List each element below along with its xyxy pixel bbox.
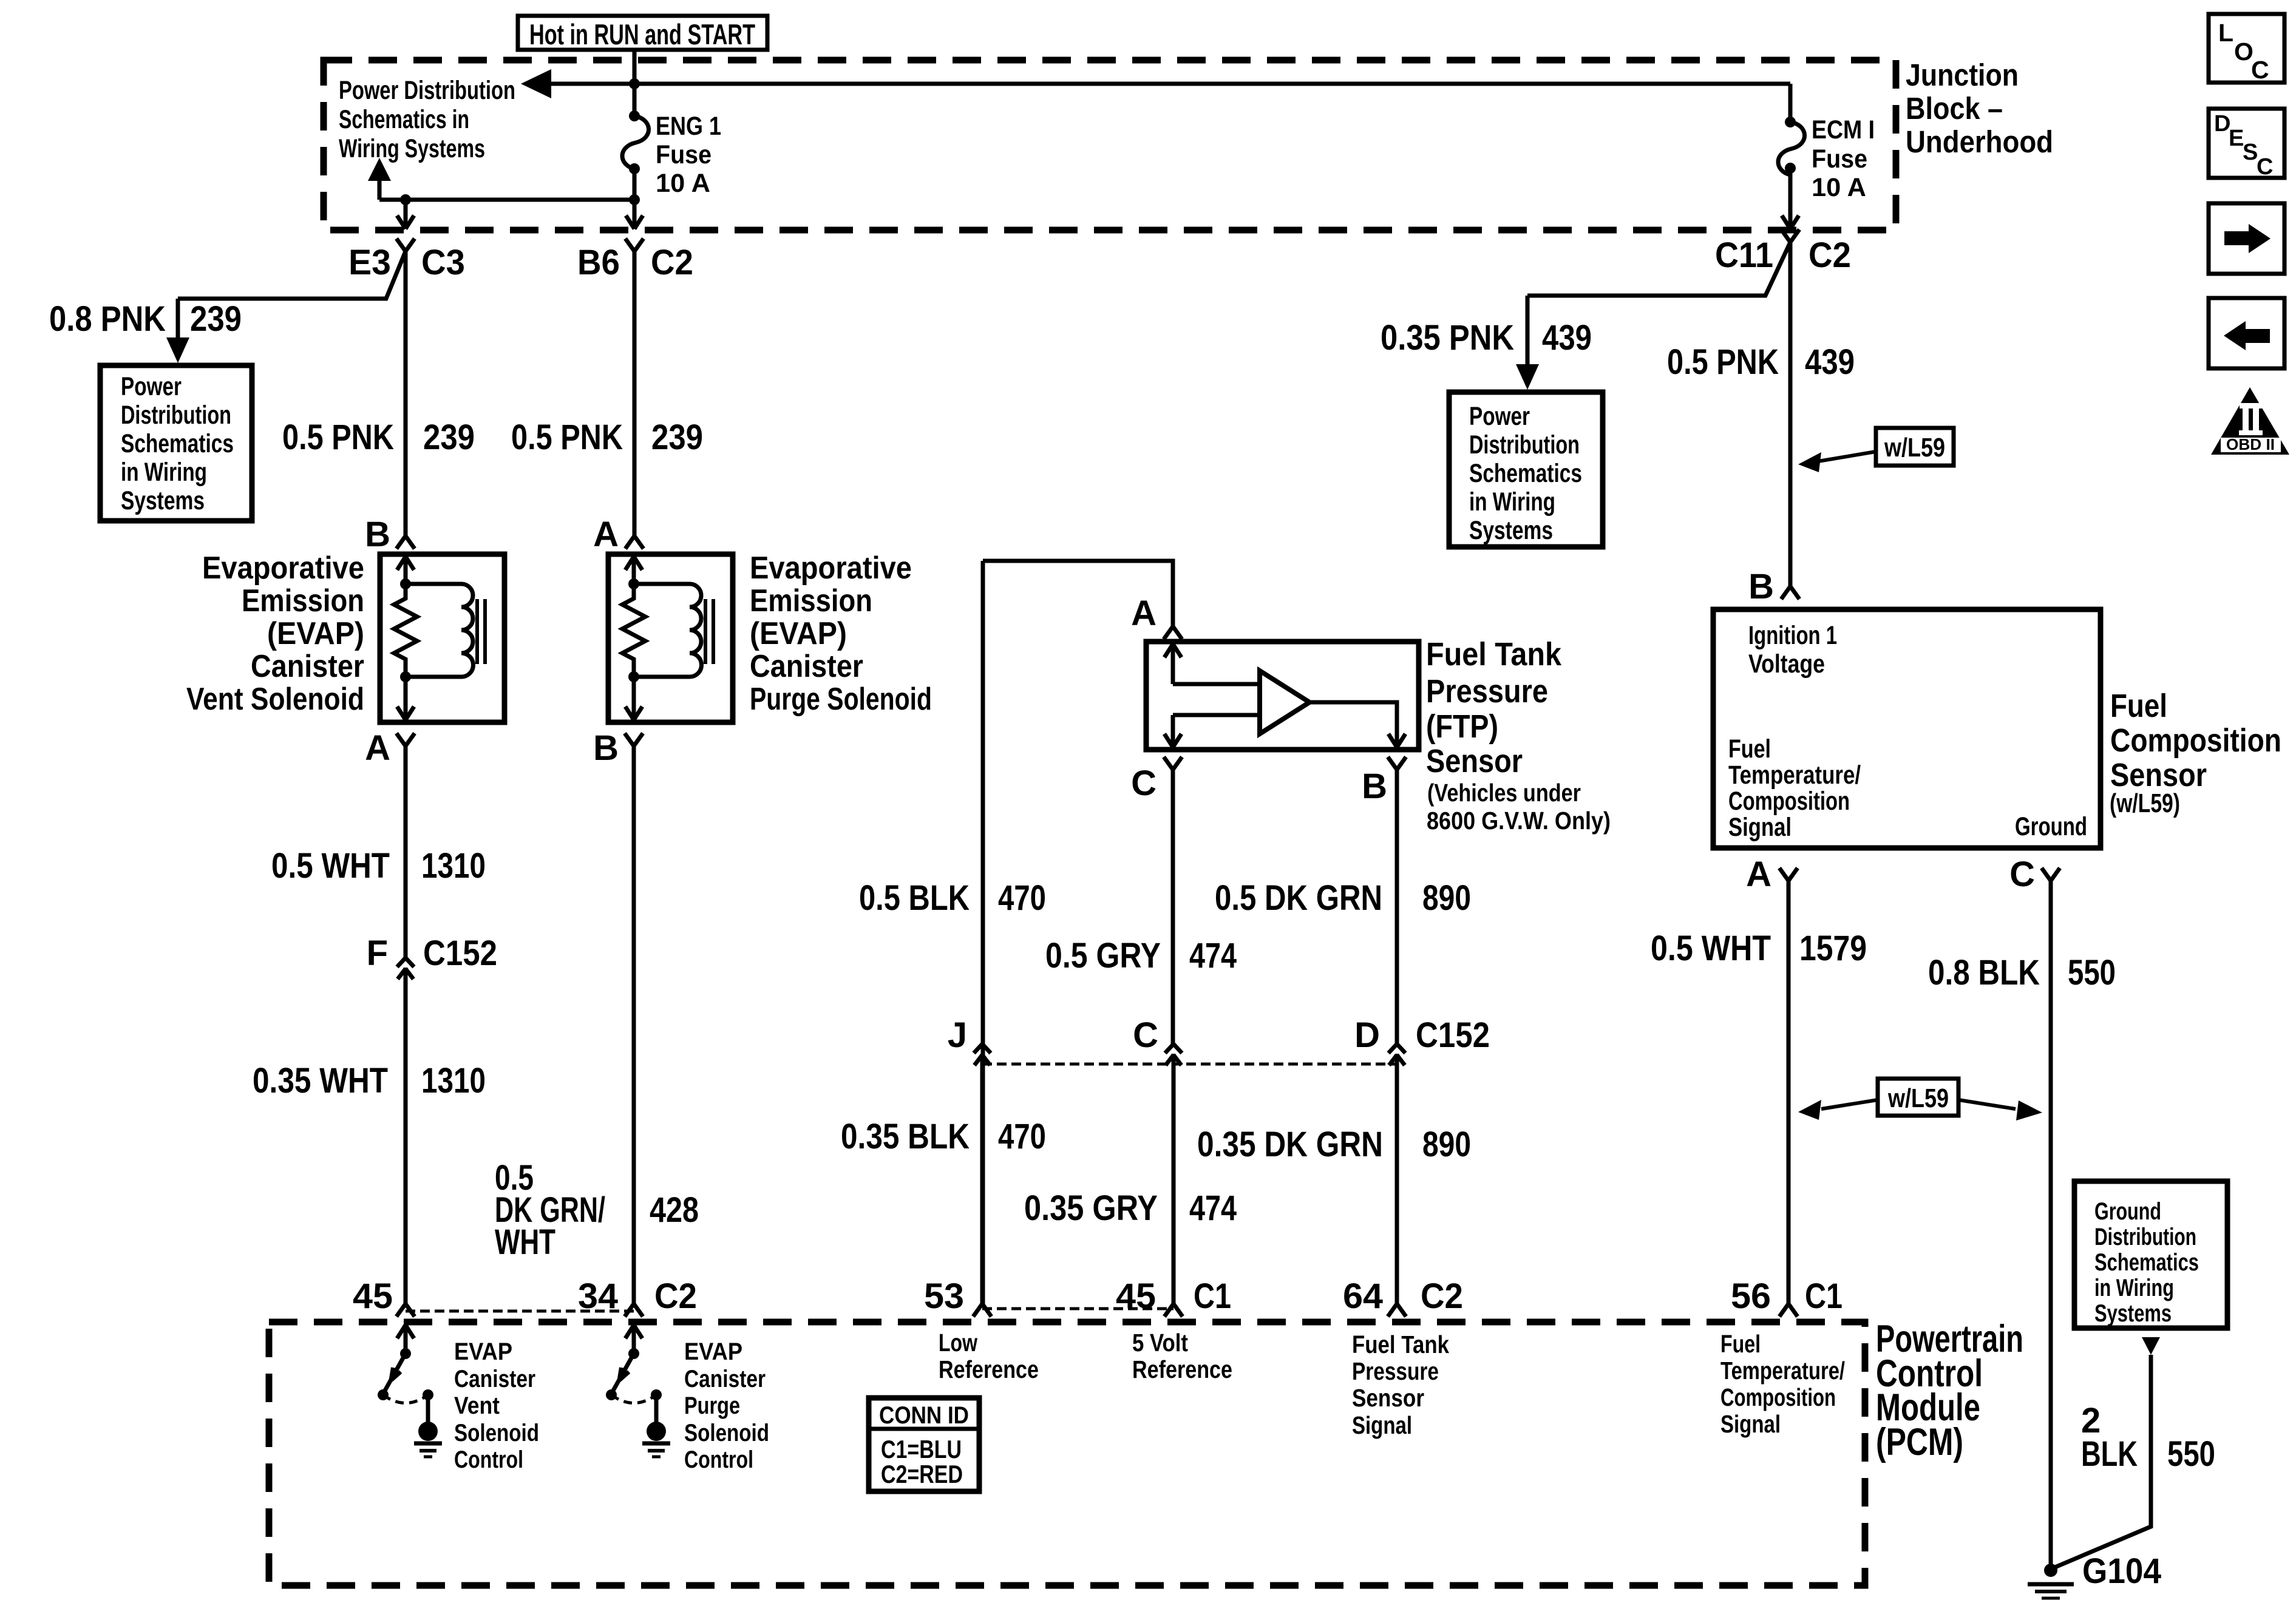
node: dot under ENG1 fuse: [629, 194, 640, 205]
svg-text:C: C: [2257, 154, 2273, 180]
svg-text:0.5 PNK: 0.5 PNK: [282, 418, 394, 457]
powertrain control module dashed border: [269, 1322, 1865, 1585]
wire/arrow: ECM I fuse output down to C11: [1788, 168, 1793, 226]
svg-text:Fuel: Fuel: [1728, 734, 1771, 764]
ground G104 node: [2044, 1564, 2057, 1577]
svg-text:Block –: Block –: [1906, 91, 2003, 126]
node: junction dot at hot feed: [629, 78, 640, 89]
svg-text:C2: C2: [1809, 236, 1851, 275]
svg-text:L: L: [2218, 19, 2233, 47]
svg-text:Schematics: Schematics: [1469, 459, 1582, 488]
svg-text:BLK: BLK: [2081, 1434, 2138, 1474]
w/L59 pointer arrow left (lower): [1821, 1100, 1878, 1109]
node: dot at E3 branch: [400, 194, 411, 205]
wire: hot feed from Hot box down: [633, 50, 637, 84]
pin B of EVAP purge solenoid: [625, 733, 634, 746]
svg-text:C1=BLU: C1=BLU: [881, 1435, 962, 1463]
ground distribution schematics box: [2074, 1181, 2227, 1328]
svg-text:Canister: Canister: [454, 1366, 535, 1392]
svg-text:0.35 PNK: 0.35 PNK: [1381, 318, 1514, 358]
svg-text:0.5 WHT: 0.5 WHT: [271, 846, 390, 886]
svg-text:Distribution: Distribution: [2094, 1224, 2196, 1250]
svg-text:Power: Power: [121, 372, 182, 401]
fuse ECM I top terminal dot: [1785, 117, 1796, 127]
svg-text:C3: C3: [421, 243, 465, 282]
in-line connector J C152: [974, 1044, 982, 1053]
pin A of fuel composition sensor: [1779, 868, 1788, 881]
svg-text:C152: C152: [423, 934, 497, 973]
svg-text:1310: 1310: [421, 1061, 486, 1100]
wire/arrow: 0.35 PNK down to power distribution box: [1526, 296, 1530, 365]
wire: bus corner down to ECM I fuse: [1788, 84, 1793, 122]
svg-text:ECM I: ECM I: [1812, 115, 1875, 144]
svg-text:1310: 1310: [421, 846, 486, 886]
ground symbol (vent control): [414, 1442, 442, 1446]
svg-text:550: 550: [2167, 1434, 2215, 1474]
pin B of FTP sensor: [1388, 757, 1397, 770]
wire/arrow: down to B6 terminal: [633, 200, 637, 226]
svg-text:Pressure: Pressure: [1426, 673, 1548, 710]
svg-text:(EVAP): (EVAP): [750, 616, 847, 651]
svg-text:B: B: [365, 515, 390, 554]
svg-text:E3: E3: [348, 243, 391, 282]
EVAP vent internal arrow down: [404, 677, 408, 717]
EVAP vent internal arrow up: [404, 559, 408, 584]
Hot in RUN and START box: [518, 16, 767, 50]
fuel tank pressure sensor box: [1146, 642, 1419, 750]
svg-text:C2: C2: [654, 1276, 697, 1316]
w/L59 callout box (lower): [1878, 1079, 1958, 1116]
svg-text:45: 45: [1116, 1276, 1156, 1316]
w/L59 pointer arrow right (lower): [1958, 1100, 2016, 1109]
svg-text:S: S: [2243, 140, 2258, 165]
svg-text:0.5 BLK: 0.5 BLK: [859, 878, 970, 918]
svg-text:Sensor: Sensor: [1426, 743, 1523, 779]
fuse ENG 1 element: [622, 116, 649, 169]
FTP internal arrow down (output): [1388, 734, 1397, 747]
svg-text:Pressure: Pressure: [1352, 1357, 1439, 1385]
svg-text:Power Distribution: Power Distribution: [339, 76, 515, 105]
svg-text:Evaporative: Evaporative: [202, 551, 364, 586]
svg-text:439: 439: [1805, 342, 1855, 382]
svg-text:Junction: Junction: [1906, 58, 2019, 92]
wire: 0.5 WHT 1310 from EVAP vent pin A: [404, 746, 408, 958]
svg-text:Signal: Signal: [1352, 1411, 1412, 1439]
arrow up to power distribution feed: [378, 180, 382, 200]
DESC icon box: [2209, 109, 2284, 178]
svg-text:Fuel: Fuel: [2110, 688, 2167, 724]
svg-text:Purge Solenoid: Purge Solenoid: [750, 682, 932, 717]
svg-text:B: B: [1748, 567, 1774, 606]
FTP internal arrow down: [1164, 734, 1173, 747]
switch blade (purge control): [613, 1354, 634, 1391]
svg-text:Schematics in: Schematics in: [339, 105, 469, 134]
svg-text:0.5 GRY: 0.5 GRY: [1045, 936, 1161, 975]
svg-text:Composition: Composition: [1728, 787, 1850, 816]
switch contact dot (purge control): [651, 1389, 662, 1400]
wire: low reference 470 down to PCM 53: [981, 561, 985, 1304]
svg-text:(Vehicles under: (Vehicles under: [1427, 779, 1581, 807]
EVAP vent control driver node: [400, 1348, 411, 1359]
svg-text:C2=RED: C2=RED: [881, 1460, 963, 1488]
svg-text:Fuse: Fuse: [656, 140, 712, 169]
inductor core bars (EVAP purge): [704, 599, 707, 664]
svg-text:D: D: [1354, 1015, 1380, 1055]
wire/arrow: 0.8 PNK down to power distribution box: [176, 299, 180, 340]
PCM pin terminal at 45 C1: [1164, 1304, 1173, 1317]
svg-text:B6: B6: [577, 243, 620, 282]
wire: 0.35 GRY 474 to PCM 45: [1172, 1054, 1176, 1304]
svg-text:1579: 1579: [1799, 929, 1867, 968]
inductor coil (EVAP purge): [634, 584, 702, 677]
svg-text:(PCM): (PCM): [1876, 1421, 1963, 1463]
svg-text:890: 890: [1422, 878, 1471, 918]
svg-text:Control: Control: [454, 1446, 523, 1473]
EVAP purge control driver arrow: [632, 1327, 636, 1354]
inductor core bars (EVAP vent): [475, 599, 479, 664]
pin B of fuel composition sensor: [1781, 586, 1790, 599]
OBD II label strip: [2221, 438, 2281, 452]
svg-text:0.5 PNK: 0.5 PNK: [1667, 342, 1779, 382]
svg-text:5 Volt: 5 Volt: [1132, 1329, 1188, 1357]
svg-text:239: 239: [423, 418, 475, 457]
svg-text:Ground: Ground: [2015, 812, 2087, 841]
PCM pin terminal at 34: [625, 1304, 634, 1317]
switch pivot dot (vent control): [378, 1389, 389, 1400]
wire: FTP signal from FTP B: [1395, 770, 1399, 1044]
svg-text:53: 53: [924, 1276, 964, 1316]
wire: 0.5 PNK 439 ignition feed: [1788, 242, 1793, 586]
svg-text:Solenoid: Solenoid: [684, 1420, 769, 1446]
svg-text:E: E: [2229, 126, 2244, 151]
solenoid stem (vent control): [426, 1395, 430, 1423]
svg-text:Fuel Tank: Fuel Tank: [1426, 636, 1562, 673]
switch blade arrowhead (purge control): [619, 1368, 621, 1380]
CONN ID table box: [869, 1398, 979, 1491]
FTP internal arrow up: [1171, 646, 1175, 684]
svg-text:34: 34: [578, 1276, 618, 1316]
svg-text:Hot in RUN and START: Hot in RUN and START: [529, 18, 755, 50]
wire: hot dot to fuse ENG1: [633, 84, 637, 116]
svg-text:in Wiring: in Wiring: [1469, 487, 1555, 517]
svg-text:0.35 GRY: 0.35 GRY: [1024, 1188, 1158, 1228]
junction block dashed border: [324, 60, 1896, 230]
svg-text:64: 64: [1343, 1276, 1383, 1316]
svg-text:470: 470: [998, 1117, 1046, 1156]
svg-text:Low: Low: [939, 1329, 977, 1357]
svg-text:Emission: Emission: [242, 583, 364, 619]
EVAP purge internal arrow up: [632, 559, 636, 584]
svg-text:Distribution: Distribution: [1469, 430, 1580, 459]
arrowhead to Power Distribution Schematics: [521, 69, 551, 98]
switch travel arc (purge control): [611, 1395, 656, 1403]
back arrow icon: [2244, 329, 2270, 343]
svg-text:Reference: Reference: [1132, 1355, 1232, 1383]
svg-text:C1: C1: [1805, 1276, 1843, 1316]
fuse ECM I bottom terminal dot: [1785, 163, 1796, 174]
svg-text:0.35 BLK: 0.35 BLK: [841, 1117, 970, 1156]
svg-text:C: C: [1131, 764, 1156, 803]
svg-text:0.5 PNK: 0.5 PNK: [511, 418, 623, 457]
PCM connector tie dashed line (45-34): [406, 1310, 634, 1313]
switch blade (vent control): [385, 1354, 406, 1391]
solenoid blob (purge control): [647, 1422, 666, 1441]
svg-text:0.8 PNK: 0.8 PNK: [49, 299, 166, 339]
op-amp (FTP sensor amplifier): [1260, 671, 1309, 734]
svg-text:Voltage: Voltage: [1748, 649, 1825, 679]
svg-text:8600 G.V.W. Only): 8600 G.V.W. Only): [1427, 807, 1611, 835]
pin C of fuel composition sensor: [2042, 868, 2051, 881]
pin A of EVAP vent solenoid: [396, 733, 406, 746]
svg-text:Composition: Composition: [2110, 722, 2281, 759]
fuse ENG 1 top terminal dot: [629, 110, 640, 121]
svg-text:890: 890: [1422, 1125, 1471, 1164]
svg-text:Signal: Signal: [1720, 1410, 1781, 1438]
svg-text:OBD II: OBD II: [2226, 435, 2275, 453]
wire: 0.5 PNK 239 from B6 to EVAP purge solenoid: [633, 251, 637, 536]
svg-text:239: 239: [651, 418, 703, 457]
connector C152 dashed tie line: [982, 1063, 1397, 1066]
svg-text:Fuel: Fuel: [1720, 1330, 1761, 1358]
resistor element (EVAP purge): [622, 584, 645, 677]
svg-text:Sensor: Sensor: [1352, 1384, 1424, 1412]
svg-text:Ignition 1: Ignition 1: [1748, 621, 1837, 650]
ground symbol (purge control): [642, 1442, 670, 1446]
svg-text:Vent Solenoid: Vent Solenoid: [186, 682, 364, 717]
EVAP purge coil top node: [628, 578, 639, 589]
svg-text:A: A: [1746, 855, 1771, 894]
fuel composition sensor box: [1713, 609, 2101, 848]
forward arrow icon: [2224, 231, 2250, 245]
pin A of EVAP purge solenoid: [625, 536, 634, 549]
wire: 0.35 BLK 470 to PCM 53: [980, 1054, 985, 1304]
wire: 0.35 WHT 1310 to PCM pin 45: [404, 968, 408, 1304]
power distribution schematics box (right): [1449, 392, 1603, 547]
svg-text:Evaporative: Evaporative: [750, 551, 912, 586]
PCM pin terminal at 56 C1: [1779, 1304, 1788, 1317]
svg-text:Distribution: Distribution: [121, 401, 231, 430]
CONN ID header separator: [871, 1427, 977, 1431]
svg-text:474: 474: [1189, 1188, 1237, 1228]
PCM connector tie dashed line (53-45): [982, 1307, 1173, 1310]
svg-text:Solenoid: Solenoid: [454, 1420, 539, 1446]
wire: bus to power distribution (left arrow): [549, 82, 1790, 86]
EVAP vent control driver arrow: [404, 1327, 408, 1354]
EVAP purge control driver node: [628, 1348, 639, 1359]
wire: 0.5 PNK 239 from E3 to EVAP vent solenoid: [404, 251, 408, 536]
svg-text:EVAP: EVAP: [454, 1338, 512, 1365]
EVAP vent coil bottom node: [400, 671, 411, 682]
wire: 2 BLK 550 ground lead: [2051, 1355, 2151, 1569]
forward arrow icon box: [2209, 203, 2284, 274]
svg-text:C1: C1: [1194, 1276, 1231, 1316]
svg-text:EVAP: EVAP: [684, 1338, 742, 1365]
svg-text:Reference: Reference: [939, 1355, 1039, 1383]
svg-text:0.5 WHT: 0.5 WHT: [1651, 929, 1771, 968]
svg-text:Power: Power: [1469, 402, 1530, 431]
OBD II pillar glyph: [2240, 403, 2262, 408]
svg-text:Fuel Tank: Fuel Tank: [1352, 1331, 1449, 1358]
wire: 0.8 BLK 550 ground from fuel comp C: [2049, 881, 2053, 1570]
svg-text:A: A: [593, 515, 619, 554]
EVAP purge internal arrow down: [632, 677, 636, 717]
EVAP canister purge solenoid box: [608, 554, 733, 722]
ground symbol G104: [2028, 1582, 2074, 1587]
FTP internal input lines: [1173, 682, 1260, 686]
svg-text:Schematics: Schematics: [2094, 1249, 2199, 1276]
inductor coil (EVAP vent): [406, 584, 474, 677]
svg-text:ENG 1: ENG 1: [656, 112, 721, 141]
svg-text:(w/L59): (w/L59): [2110, 788, 2180, 818]
PCM pin terminal at 64 C2: [1388, 1304, 1397, 1317]
EVAP vent coil top node: [400, 578, 411, 589]
svg-text:Temperature/: Temperature/: [1728, 761, 1861, 790]
connector E3/C3: [396, 239, 406, 251]
pin A of FTP sensor: [1164, 626, 1173, 639]
svg-text:C152: C152: [1416, 1015, 1490, 1055]
svg-text:428: 428: [650, 1190, 699, 1230]
svg-text:in Wiring: in Wiring: [2094, 1275, 2174, 1301]
svg-text:470: 470: [998, 878, 1046, 918]
svg-text:Schematics: Schematics: [121, 429, 234, 458]
wire: junction block internal bus: [379, 198, 634, 202]
EVAP canister vent solenoid box: [380, 554, 504, 722]
svg-text:Temperature/: Temperature/: [1720, 1357, 1845, 1385]
wire/arrow: down to E3 terminal: [404, 200, 408, 226]
wire: low reference top run: [983, 561, 1173, 626]
svg-text:Emission: Emission: [750, 583, 872, 619]
in-line connector C C152: [1165, 1044, 1173, 1053]
svg-text:10 A: 10 A: [656, 169, 710, 198]
w/L59 callout box (upper): [1876, 428, 1954, 466]
fuse ENG 1 bottom terminal dot: [629, 163, 640, 174]
svg-text:(EVAP): (EVAP): [267, 616, 364, 651]
svg-text:Sensor: Sensor: [2110, 757, 2207, 793]
svg-text:Wiring Systems: Wiring Systems: [339, 134, 485, 163]
svg-text:B: B: [1362, 767, 1387, 806]
svg-text:Fuse: Fuse: [1812, 144, 1867, 174]
svg-text:A: A: [365, 728, 390, 768]
svg-text:Ground: Ground: [2094, 1198, 2161, 1225]
svg-text:(FTP): (FTP): [1426, 708, 1498, 745]
svg-text:C11: C11: [1715, 236, 1773, 275]
svg-text:239: 239: [190, 299, 242, 339]
svg-text:Vent: Vent: [454, 1392, 500, 1419]
arrowhead from ground distribution box: [2142, 1337, 2160, 1355]
svg-text:Systems: Systems: [1469, 516, 1553, 545]
svg-text:Canister: Canister: [251, 649, 364, 684]
svg-text:56: 56: [1731, 1276, 1771, 1316]
connector C11/C2: [1781, 229, 1790, 242]
svg-text:0.35 WHT: 0.35 WHT: [253, 1061, 388, 1100]
switch pivot dot (purge control): [606, 1389, 617, 1400]
svg-text:w/L59: w/L59: [1884, 433, 1945, 463]
svg-text:Control: Control: [684, 1446, 753, 1473]
svg-text:Systems: Systems: [121, 486, 205, 515]
wire: 0.35 DK GRN 890 to PCM 64: [1395, 1054, 1399, 1304]
svg-text:45: 45: [353, 1276, 393, 1316]
svg-text:0.35 DK GRN: 0.35 DK GRN: [1197, 1125, 1383, 1164]
switch contact dot (vent control): [423, 1389, 433, 1400]
in-line connector F C152: [397, 958, 406, 967]
fuse ECM I element: [1778, 122, 1805, 175]
svg-text:Systems: Systems: [2094, 1300, 2172, 1327]
svg-text:Canister: Canister: [684, 1366, 766, 1392]
back arrow icon box: [2209, 298, 2284, 368]
svg-text:WHT: WHT: [495, 1222, 555, 1262]
pin B of EVAP vent solenoid: [396, 536, 406, 549]
pin C of FTP sensor: [1164, 757, 1173, 770]
resistor element (EVAP vent): [394, 584, 417, 677]
svg-text:C: C: [1133, 1015, 1158, 1055]
svg-text:w/L59: w/L59: [1887, 1083, 1949, 1113]
svg-text:439: 439: [1542, 318, 1592, 358]
svg-text:F: F: [367, 934, 388, 973]
power distribution schematics box (left): [100, 365, 252, 521]
svg-text:Underhood: Underhood: [1906, 124, 2053, 159]
solenoid stem (purge control): [654, 1395, 659, 1423]
svg-text:A: A: [1131, 594, 1156, 633]
PCM pin terminal at 53: [973, 1304, 982, 1317]
svg-text:CONN ID: CONN ID: [879, 1402, 969, 1429]
svg-text:C2: C2: [1421, 1276, 1463, 1316]
svg-text:Canister: Canister: [750, 649, 863, 684]
connector B6/C2: [625, 239, 634, 251]
FTP output line: [1309, 702, 1397, 744]
w/L59 pointer arrow (upper): [1818, 452, 1876, 461]
wire: 0.5 WHT 1579 fuel temp signal to PCM 56: [1787, 881, 1791, 1304]
svg-text:Composition: Composition: [1720, 1383, 1836, 1411]
svg-text:474: 474: [1189, 936, 1237, 975]
switch blade arrowhead (vent control): [391, 1368, 393, 1380]
svg-text:J: J: [948, 1015, 967, 1055]
svg-text:550: 550: [2068, 953, 2116, 992]
wire: 0.5 DK GRN/WHT 428 to PCM pin 34: [632, 746, 636, 1304]
svg-text:C: C: [2009, 855, 2035, 894]
svg-text:G104: G104: [2082, 1551, 2161, 1591]
svg-text:0.8 BLK: 0.8 BLK: [1928, 953, 2040, 992]
LOC icon box: [2209, 14, 2284, 83]
wire: E3 branch diagonal to power distribution: [178, 251, 406, 299]
svg-text:B: B: [593, 728, 619, 768]
switch travel arc (vent control): [383, 1395, 428, 1403]
wire: C11 branch diagonal: [1527, 242, 1790, 296]
wire: 5 volt reference from FTP C: [1171, 770, 1175, 1044]
PCM pin terminal at 45: [396, 1304, 406, 1317]
svg-text:0.5 DK GRN: 0.5 DK GRN: [1215, 878, 1382, 918]
svg-text:C: C: [2251, 56, 2269, 84]
svg-text:10 A: 10 A: [1812, 173, 1866, 202]
svg-text:C2: C2: [651, 243, 693, 282]
svg-text:in Wiring: in Wiring: [121, 458, 207, 487]
EVAP purge coil bottom node: [628, 671, 639, 682]
svg-text:Purge: Purge: [684, 1392, 740, 1419]
solenoid blob (vent control): [418, 1422, 438, 1441]
OBD II triangle icon: [2211, 387, 2289, 455]
wire: fuse ENG1 output down: [633, 169, 637, 200]
svg-text:Signal: Signal: [1728, 813, 1792, 842]
in-line connector D C152: [1388, 1044, 1397, 1053]
